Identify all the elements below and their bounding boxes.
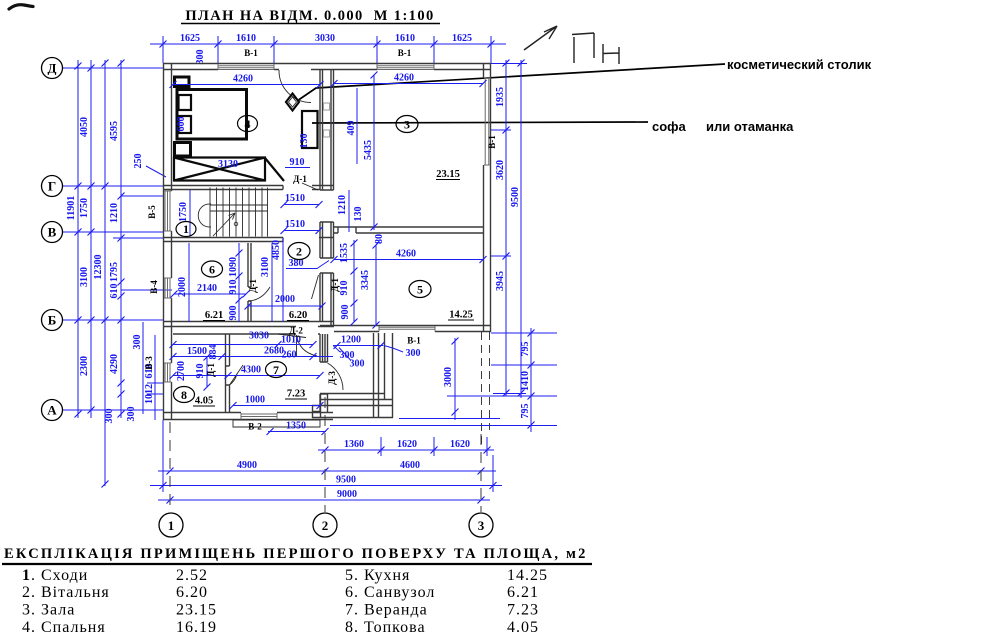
svg-text:В-4: В-4 — [149, 280, 159, 294]
svg-text:4050: 4050 — [79, 117, 90, 137]
svg-text:3620: 3620 — [495, 160, 506, 180]
axis line Г — [62, 185, 163, 187]
porch walls — [312, 333, 393, 418]
room circle 1 — [176, 222, 196, 237]
svg-text:3: 3 — [478, 518, 485, 533]
svg-text:1935: 1935 — [495, 87, 506, 107]
svg-text:3945: 3945 — [495, 271, 506, 291]
svg-text:4260: 4260 — [233, 74, 253, 85]
svg-text:7.23: 7.23 — [507, 602, 539, 619]
room circle 3 — [396, 116, 418, 133]
svg-text:1: 1 — [168, 518, 175, 533]
svg-text:4600: 4600 — [400, 460, 420, 471]
door room 2 leaf — [312, 275, 319, 299]
nightstand bottom — [175, 143, 191, 157]
svg-text:Г: Г — [48, 179, 56, 194]
balcony door arc bedroom — [279, 70, 311, 103]
outer wall right — [484, 63, 491, 332]
door Д-3 arc — [328, 363, 344, 390]
svg-text:Д-1: Д-1 — [248, 279, 258, 293]
step below В-2 — [233, 420, 320, 427]
outer wall bottom left part — [163, 413, 333, 420]
svg-text:2300: 2300 — [79, 356, 90, 376]
svg-text:300: 300 — [104, 409, 115, 424]
svg-text:В-2: В-2 — [248, 422, 262, 432]
svg-text:1750: 1750 — [79, 198, 90, 218]
window В-2 bottom — [241, 413, 277, 420]
pillow 2 — [179, 116, 192, 133]
svg-text:12300: 12300 — [93, 255, 104, 280]
right chain 1935/3620/3945 — [505, 60, 507, 396]
svg-text:250: 250 — [133, 154, 144, 169]
svg-text:6. Санвузол: 6. Санвузол — [345, 584, 435, 601]
room circle 6 — [202, 261, 223, 277]
svg-text:2000: 2000 — [177, 277, 188, 297]
nightstand top — [175, 77, 190, 87]
svg-text:2140: 2140 — [197, 283, 217, 294]
left chain 4050/1750/3100/2300 — [90, 60, 92, 418]
svg-text:В: В — [48, 225, 57, 240]
svg-text:7.23: 7.23 — [287, 389, 305, 400]
svg-text:2000: 2000 — [275, 294, 295, 305]
wall between rooms 6 and 2 — [248, 243, 251, 322]
svg-text:910: 910 — [339, 281, 350, 296]
svg-text:2: 2 — [296, 245, 302, 259]
top dimension chain 1625/1610/3030/1610/1625 — [150, 43, 506, 45]
svg-text:3100: 3100 — [79, 267, 90, 287]
svg-text:1610: 1610 — [395, 33, 415, 44]
svg-text:1200: 1200 — [341, 335, 361, 346]
svg-text:3345: 3345 — [360, 270, 371, 290]
svg-text:косметический столик: косметический столик — [727, 57, 872, 72]
axis circle Б — [42, 310, 63, 331]
room7 dims 2700/910/4300 — [173, 375, 320, 377]
svg-text:6.20: 6.20 — [176, 584, 208, 601]
stairs treads — [210, 188, 268, 237]
axis circle 1 — [159, 513, 183, 537]
svg-text:8: 8 — [181, 388, 187, 402]
svg-text:1610: 1610 — [236, 33, 256, 44]
svg-text:1750: 1750 — [178, 202, 189, 222]
svg-text:9500: 9500 — [336, 475, 356, 486]
bottom chain 9500 — [150, 485, 502, 487]
svg-text:600: 600 — [176, 117, 187, 132]
window В-4 left — [164, 278, 172, 298]
dim 4260 room3 — [334, 83, 483, 85]
svg-text:ЕКСПЛІКАЦІЯ ПРИМІЩЕНЬ ПЕРШОГО: ЕКСПЛІКАЦІЯ ПРИМІЩЕНЬ ПЕРШОГО ПОВЕРХУ ТА… — [4, 546, 588, 562]
spine wall — [320, 70, 334, 326]
svg-text:1090: 1090 — [228, 257, 239, 277]
svg-text:В-3: В-3 — [144, 356, 154, 370]
svg-text:14.25: 14.25 — [507, 567, 548, 584]
svg-text:80: 80 — [374, 234, 385, 244]
dim 2140 room6 — [174, 293, 246, 295]
outer wall top — [163, 64, 491, 70]
svg-text:2. Вітальня: 2. Вітальня — [22, 584, 110, 601]
svg-text:4900: 4900 — [237, 460, 257, 471]
dim 1510 upper — [284, 204, 319, 206]
svg-text:5. Кухня: 5. Кухня — [345, 567, 410, 584]
wardrobe with X — [174, 158, 284, 182]
window В-1 right — [484, 78, 491, 165]
left chain 11901 — [77, 60, 79, 418]
svg-text:1510: 1510 — [285, 219, 305, 230]
cosmetic table diamond — [286, 94, 299, 111]
door Д-2 arc — [297, 335, 318, 356]
outer wall left — [164, 63, 172, 420]
window В-5 left — [164, 191, 172, 231]
axis circle 3 — [469, 513, 493, 537]
svg-text:ПЛАН НА ВІДМ. 0.000 М 1:100: ПЛАН НА ВІДМ. 0.000 М 1:100 — [185, 8, 434, 24]
svg-text:7: 7 — [273, 363, 279, 377]
svg-text:софа: софа — [652, 119, 687, 134]
dim 3000 vertical — [454, 338, 456, 420]
svg-text:3: 3 — [404, 118, 410, 132]
dim 4850 room2 — [282, 238, 284, 322]
dim 1510 lower — [284, 230, 319, 232]
svg-text:1: 1 — [183, 222, 189, 236]
axis circle 2 — [313, 513, 337, 537]
stairs arrow — [213, 213, 235, 236]
dim 4260 bedroom — [173, 84, 320, 86]
svg-text:130: 130 — [353, 207, 364, 222]
svg-text:9000: 9000 — [337, 489, 357, 500]
svg-text:Б: Б — [48, 313, 57, 328]
bottom extension lines — [169, 422, 171, 512]
leader cosmetic table — [297, 64, 725, 101]
svg-text:Д-2: Д-2 — [289, 326, 303, 336]
veranda dashed outline — [482, 332, 490, 446]
svg-text:Д: Д — [48, 61, 57, 76]
svg-text:В-5: В-5 — [147, 205, 157, 219]
svg-text:2.52: 2.52 — [176, 567, 208, 584]
svg-text:130: 130 — [299, 134, 310, 149]
dim 409 — [356, 88, 358, 164]
room7 dim 1000 — [233, 405, 320, 407]
svg-text:1620: 1620 — [450, 439, 470, 450]
svg-text:1535: 1535 — [339, 243, 350, 263]
svg-text:1350: 1350 — [286, 421, 306, 432]
right extension lines — [491, 64, 527, 394]
left small chain 300/610/1012/300 — [142, 322, 144, 414]
svg-text:1360: 1360 — [344, 439, 364, 450]
svg-text:23.15: 23.15 — [176, 602, 217, 619]
wall axis Б — [163, 322, 334, 335]
svg-text:1625: 1625 — [180, 33, 200, 44]
svg-text:4.05: 4.05 — [195, 396, 213, 407]
dim 5435 — [373, 75, 375, 230]
svg-text:23.15: 23.15 — [436, 169, 460, 180]
svg-text:1510: 1510 — [285, 193, 305, 204]
leader sofa — [312, 122, 648, 123]
dim 3345 kitchen — [375, 245, 377, 325]
left chain 12300 — [104, 60, 106, 486]
svg-text:3. Зала: 3. Зала — [22, 602, 75, 619]
svg-text:3100: 3100 — [260, 257, 271, 277]
svg-text:4850: 4850 — [271, 240, 282, 260]
wall axis Г — [163, 186, 334, 190]
bottom chain 9000 — [158, 499, 490, 501]
dim 3100 room2 — [271, 243, 273, 322]
svg-text:910: 910 — [290, 157, 305, 168]
svg-text:8. Топкова: 8. Топкова — [345, 619, 426, 636]
dims 1535/910/900 kitchen — [353, 240, 355, 322]
svg-text:910: 910 — [228, 280, 239, 295]
svg-text:300: 300 — [195, 50, 206, 65]
svg-text:300: 300 — [350, 359, 365, 370]
svg-text:6.20: 6.20 — [289, 310, 307, 321]
room circle 4 — [238, 116, 258, 132]
room circle 8 — [174, 387, 195, 403]
room circle 5 — [409, 281, 431, 298]
dim 2000 room2 — [248, 305, 322, 307]
svg-text:795: 795 — [520, 342, 531, 357]
svg-text:А: А — [47, 403, 57, 418]
dims 1090/910/900 room6 — [238, 243, 240, 322]
svg-text:3130: 3130 — [218, 159, 238, 170]
right lower chain 795/1410/795 — [530, 328, 532, 432]
svg-text:4300: 4300 — [241, 365, 261, 376]
svg-text:5: 5 — [417, 283, 423, 297]
window В-1 top right — [377, 64, 434, 70]
dim 4260 kitchen — [334, 259, 483, 261]
sofa — [302, 111, 318, 148]
svg-text:4.05: 4.05 — [507, 619, 539, 636]
svg-text:884: 884 — [208, 345, 219, 360]
bottom chain 1360/1620/1620 — [318, 449, 494, 451]
svg-text:300: 300 — [126, 407, 137, 422]
svg-text:3000: 3000 — [443, 367, 454, 387]
axis line А — [62, 409, 163, 411]
svg-text:1620: 1620 — [397, 439, 417, 450]
wall between rooms 3 and 5 — [334, 227, 484, 233]
vent shafts in spine wall — [324, 103, 330, 110]
corridor dims 3030/1010 — [173, 344, 313, 346]
svg-text:900: 900 — [228, 306, 239, 321]
axis line В — [62, 231, 163, 233]
svg-text:1210: 1210 — [109, 203, 120, 223]
axis circle Г — [42, 176, 63, 197]
svg-text:Д-1: Д-1 — [293, 174, 307, 184]
axis circle В — [42, 222, 63, 243]
svg-text:300: 300 — [132, 335, 143, 350]
right chain 9500 — [520, 60, 522, 398]
svg-text:14.25: 14.25 — [449, 310, 473, 321]
svg-text:В-1: В-1 — [487, 135, 497, 149]
svg-text:4595: 4595 — [109, 121, 120, 141]
svg-text:4290: 4290 — [109, 354, 120, 374]
svg-text:4. Спальня: 4. Спальня — [22, 619, 106, 636]
svg-text:4260: 4260 — [396, 249, 416, 260]
room circle 2 — [288, 243, 310, 260]
axis circle А — [42, 400, 63, 421]
svg-text:1795: 1795 — [109, 262, 120, 282]
svg-text:9500: 9500 — [510, 187, 521, 207]
svg-text:910: 910 — [195, 364, 206, 379]
bottom wall of kitchen (room5) — [320, 326, 491, 332]
dim 1350 — [268, 431, 326, 433]
svg-text:3030: 3030 — [249, 331, 269, 342]
svg-text:В-1: В-1 — [244, 48, 258, 58]
svg-text:1410: 1410 — [520, 371, 531, 391]
pillow 1 — [179, 95, 192, 110]
svg-text:или отаманка: или отаманка — [706, 119, 794, 134]
door room 8 arc — [230, 365, 244, 385]
svg-text:Д-1: Д-1 — [330, 278, 340, 292]
window В-3 left — [164, 363, 172, 382]
svg-text:900: 900 — [340, 305, 351, 320]
svg-text:4260: 4260 — [394, 73, 414, 84]
svg-text:6.21: 6.21 — [205, 310, 223, 321]
porch dim 1200 — [333, 345, 383, 347]
corner smudge — [9, 5, 33, 9]
svg-text:В-1: В-1 — [398, 48, 412, 58]
window В-1 kitchen bottom — [379, 326, 435, 332]
dim 1750 stairs — [189, 190, 191, 236]
svg-text:2: 2 — [322, 518, 329, 533]
svg-text:795: 795 — [520, 404, 531, 419]
bottom chain 4900/4600 — [158, 470, 496, 472]
svg-text:6.21: 6.21 — [507, 584, 539, 601]
dim 1210/130 near spine — [348, 190, 350, 232]
svg-text:1000: 1000 — [245, 395, 265, 406]
svg-text:610: 610 — [109, 284, 120, 299]
room circle 7 — [266, 362, 287, 378]
axis line Д — [62, 67, 163, 69]
svg-text:Д-3: Д-3 — [327, 371, 337, 385]
left extension lines — [113, 196, 172, 394]
svg-text:11901: 11901 — [66, 196, 77, 220]
north arrow — [524, 26, 557, 50]
bed — [177, 90, 247, 140]
svg-text:260: 260 — [282, 350, 297, 361]
north label Пн — [572, 33, 619, 64]
svg-text:6: 6 — [209, 263, 215, 277]
corridor dims 1500/884/2680/260 — [173, 356, 333, 358]
svg-text:2700: 2700 — [176, 361, 187, 381]
svg-text:7. Веранда: 7. Веранда — [345, 602, 428, 619]
window В-1 top left — [218, 64, 274, 70]
svg-text:1210: 1210 — [337, 195, 348, 215]
svg-text:4: 4 — [245, 117, 251, 131]
wall between rooms 8 and 7 — [226, 334, 230, 412]
svg-text:5435: 5435 — [363, 140, 374, 160]
svg-text:1500: 1500 — [187, 346, 207, 357]
axis line Б — [62, 319, 163, 321]
door room 6 arc — [249, 287, 270, 301]
stairs U-turn — [198, 204, 211, 227]
svg-text:16.19: 16.19 — [176, 619, 217, 636]
svg-text:300: 300 — [406, 348, 421, 359]
wall below stairs — [163, 238, 334, 242]
svg-text:Д-1: Д-1 — [206, 363, 216, 377]
svg-text:1625: 1625 — [452, 33, 472, 44]
svg-text:409: 409 — [346, 121, 357, 136]
left chain 4595/1210/1795/610/4290 — [120, 60, 122, 418]
svg-text:В-1: В-1 — [407, 336, 421, 346]
svg-text:3030: 3030 — [315, 33, 335, 44]
dim 2000 room6 vertical — [188, 243, 190, 322]
svg-text:1. Сходи: 1. Сходи — [22, 567, 88, 584]
lower spine wall (room 7 right) — [320, 334, 328, 413]
axis circle Д — [42, 58, 63, 79]
